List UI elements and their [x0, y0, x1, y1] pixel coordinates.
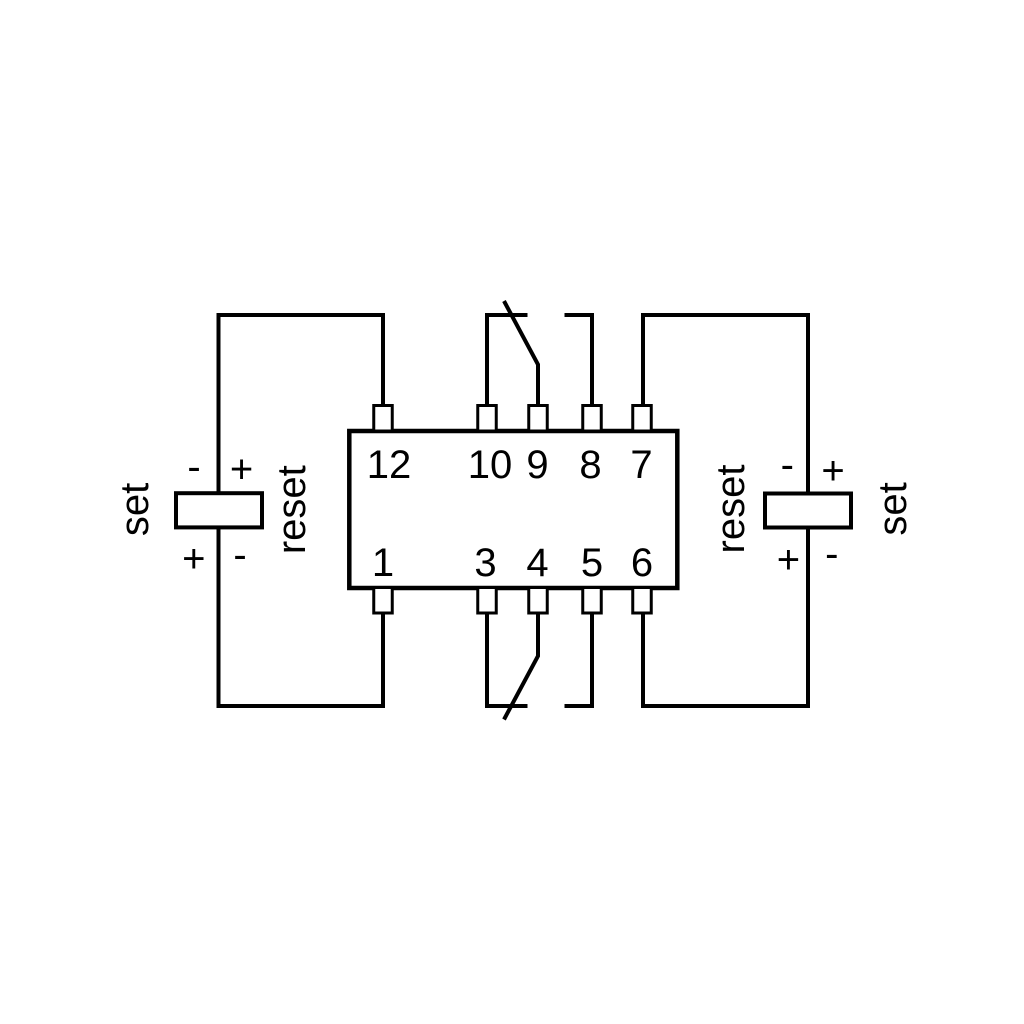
svg-text:1: 1: [372, 541, 394, 585]
switch: bottom changeover moving contact arm from pin 4: [504, 612, 538, 720]
wire: left loop from pin 12 up, across, down through set/reset coil, back to pin 1: [219, 315, 384, 706]
relay body U1: [349, 431, 677, 588]
coil: left relay coil (set/reset): [176, 493, 262, 527]
pin stub 4: [529, 588, 548, 614]
svg-text:4: 4: [526, 541, 548, 585]
pin stub 3: [478, 588, 497, 614]
wire: pin 10 vertical + top fixed contact bar: [487, 315, 528, 406]
svg-text:9: 9: [526, 443, 548, 487]
switch: top changeover moving contact arm from pin 9: [504, 301, 538, 406]
svg-text:8: 8: [579, 443, 601, 487]
svg-text:set: set: [871, 482, 915, 535]
pin stub 1: [374, 588, 393, 614]
wire: right loop from pin 7 up, across, down through reset/set coil, back to pin 6: [643, 315, 808, 706]
svg-text:12: 12: [367, 443, 412, 487]
svg-text:+: +: [182, 537, 205, 581]
pin stub 9: [529, 406, 548, 432]
svg-text:+: +: [777, 538, 800, 582]
pin stub 12: [374, 406, 393, 432]
pin stub 8: [583, 406, 602, 432]
wire: pin 8 vertical + short left contact stub: [565, 315, 593, 406]
svg-text:reset: reset: [709, 465, 753, 554]
svg-text:-: -: [187, 445, 200, 489]
svg-text:set: set: [113, 483, 157, 536]
svg-text:reset: reset: [270, 465, 314, 554]
wire: pin 3 vertical + bottom fixed contact bar: [487, 612, 528, 706]
pin stub 7: [633, 406, 652, 432]
svg-text:-: -: [233, 533, 246, 577]
wire: pin 5 vertical + short left contact stub: [565, 612, 593, 706]
svg-text:6: 6: [631, 541, 653, 585]
svg-text:10: 10: [468, 443, 513, 487]
pin stub 10: [478, 406, 497, 432]
svg-text:-: -: [781, 443, 794, 487]
svg-text:5: 5: [581, 541, 603, 585]
svg-text:-: -: [825, 532, 838, 576]
svg-text:+: +: [230, 447, 253, 491]
svg-text:+: +: [821, 449, 844, 493]
coil: right relay coil (reset/set): [765, 494, 851, 528]
pin stub 6: [633, 588, 652, 614]
pin stub 5: [583, 588, 602, 614]
svg-text:7: 7: [630, 443, 652, 487]
svg-text:3: 3: [474, 541, 496, 585]
